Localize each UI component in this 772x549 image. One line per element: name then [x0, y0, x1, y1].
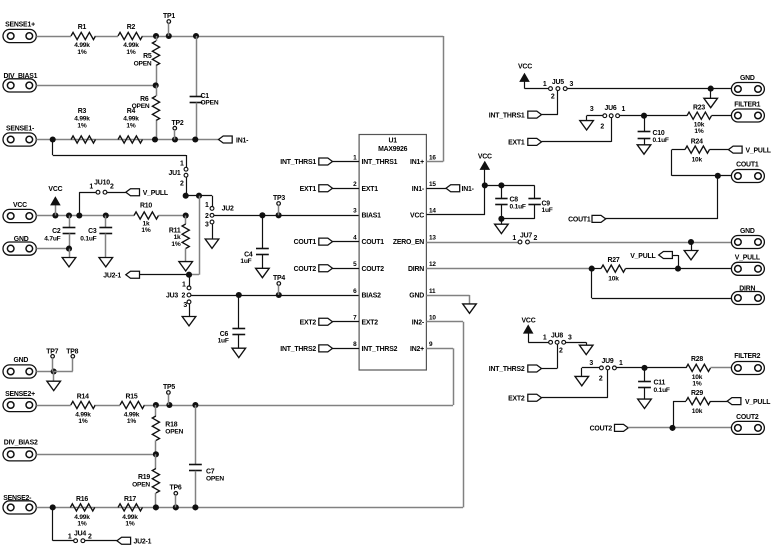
- svg-text:TP7: TP7: [46, 349, 58, 356]
- svg-text:OPEN: OPEN: [206, 475, 224, 482]
- svg-text:1uF: 1uF: [542, 207, 553, 214]
- svg-text:DIRN: DIRN: [408, 266, 424, 273]
- svg-text:C2: C2: [52, 228, 61, 235]
- svg-text:GND: GND: [409, 293, 424, 300]
- svg-text:1%: 1%: [78, 418, 87, 425]
- svg-text:R19: R19: [138, 474, 150, 481]
- svg-text:INT_THRS2: INT_THRS2: [489, 366, 525, 373]
- svg-text:4.7uF: 4.7uF: [44, 235, 60, 242]
- svg-text:1: 1: [182, 281, 186, 288]
- svg-text:IN1-: IN1-: [236, 137, 249, 144]
- svg-text:1%: 1%: [692, 381, 701, 388]
- svg-text:3: 3: [205, 222, 209, 229]
- svg-text:0.1uF: 0.1uF: [80, 235, 96, 242]
- svg-text:1uF: 1uF: [218, 337, 229, 344]
- svg-text:IN1+: IN1+: [410, 159, 424, 166]
- svg-text:C7: C7: [206, 468, 215, 475]
- svg-text:COUT2: COUT2: [590, 426, 613, 433]
- svg-text:TP2: TP2: [171, 120, 183, 127]
- svg-text:INT_THRS2: INT_THRS2: [362, 346, 398, 353]
- svg-text:16: 16: [429, 154, 436, 161]
- svg-text:V_PULL: V_PULL: [735, 254, 760, 261]
- svg-text:IN2+: IN2+: [410, 346, 424, 353]
- svg-text:OPEN: OPEN: [134, 60, 152, 67]
- svg-text:2: 2: [551, 94, 555, 101]
- svg-text:0.1uF: 0.1uF: [510, 203, 526, 210]
- svg-text:ZERO_EN: ZERO_EN: [393, 239, 424, 246]
- svg-text:FILTER1: FILTER1: [734, 101, 760, 108]
- svg-text:11: 11: [429, 288, 436, 295]
- svg-text:1%: 1%: [125, 521, 134, 528]
- svg-text:0.1uF: 0.1uF: [653, 137, 669, 144]
- svg-text:SENSE1-: SENSE1-: [6, 126, 35, 133]
- svg-text:JU8: JU8: [551, 333, 563, 340]
- svg-text:2: 2: [88, 534, 92, 541]
- svg-text:TP5: TP5: [163, 384, 175, 391]
- svg-text:2: 2: [205, 213, 209, 220]
- svg-text:JU6: JU6: [604, 105, 616, 112]
- svg-text:10k: 10k: [692, 408, 703, 415]
- svg-text:VCC: VCC: [13, 202, 27, 209]
- svg-text:BIAS2: BIAS2: [362, 293, 382, 300]
- svg-text:2: 2: [534, 235, 538, 242]
- svg-text:1: 1: [180, 160, 184, 167]
- svg-text:VCC: VCC: [518, 64, 532, 71]
- svg-text:GND: GND: [14, 357, 29, 364]
- svg-text:GND: GND: [740, 228, 755, 235]
- svg-text:JU2-1: JU2-1: [103, 273, 121, 280]
- svg-text:COUT1: COUT1: [362, 239, 385, 246]
- svg-text:JU10: JU10: [94, 179, 110, 186]
- svg-text:TP4: TP4: [273, 275, 285, 282]
- svg-text:COUT1: COUT1: [568, 217, 591, 224]
- svg-text:10k: 10k: [692, 156, 703, 163]
- svg-text:C10: C10: [653, 130, 665, 137]
- svg-text:2: 2: [559, 348, 563, 355]
- svg-text:COUT2: COUT2: [362, 266, 385, 273]
- svg-text:INT_THRS1: INT_THRS1: [489, 112, 525, 119]
- svg-text:V_PULL: V_PULL: [746, 147, 771, 154]
- svg-text:1%: 1%: [171, 241, 180, 248]
- svg-text:JU2-1: JU2-1: [134, 538, 152, 545]
- svg-text:1%: 1%: [127, 418, 136, 425]
- svg-text:VCC: VCC: [522, 317, 536, 324]
- svg-text:SENSE2+: SENSE2+: [5, 391, 35, 398]
- svg-text:R29: R29: [691, 390, 703, 397]
- svg-text:1: 1: [68, 534, 72, 541]
- svg-text:R16: R16: [76, 496, 88, 503]
- svg-text:0.1uF: 0.1uF: [654, 387, 670, 394]
- svg-text:1: 1: [512, 235, 516, 242]
- svg-text:JU7: JU7: [520, 232, 532, 239]
- svg-text:TP1: TP1: [163, 13, 175, 20]
- svg-text:OPEN: OPEN: [132, 481, 150, 488]
- svg-text:TP6: TP6: [169, 485, 181, 492]
- svg-text:R1: R1: [78, 24, 87, 31]
- svg-text:1: 1: [543, 81, 547, 88]
- svg-text:OPEN: OPEN: [201, 100, 219, 107]
- svg-text:BIAS1: BIAS1: [362, 213, 382, 220]
- svg-text:VCC: VCC: [410, 213, 424, 220]
- svg-text:1%: 1%: [694, 128, 703, 135]
- svg-text:3: 3: [589, 360, 593, 367]
- svg-text:10k: 10k: [608, 276, 619, 283]
- svg-text:IN2-: IN2-: [412, 319, 425, 326]
- svg-text:IN1-: IN1-: [412, 186, 425, 193]
- svg-text:JU1: JU1: [168, 170, 180, 177]
- svg-text:TP3: TP3: [273, 195, 285, 202]
- svg-text:3: 3: [183, 302, 187, 309]
- svg-text:1: 1: [543, 335, 547, 342]
- svg-text:EXT1: EXT1: [508, 140, 525, 147]
- svg-text:1: 1: [619, 360, 623, 367]
- svg-text:1%: 1%: [141, 227, 150, 234]
- svg-text:TP8: TP8: [66, 349, 78, 356]
- svg-text:1uF: 1uF: [240, 258, 251, 265]
- svg-text:JU9: JU9: [601, 358, 613, 365]
- svg-text:DIV_BIAS1: DIV_BIAS1: [4, 73, 38, 80]
- svg-text:R14: R14: [77, 393, 89, 400]
- svg-text:1%: 1%: [126, 122, 135, 129]
- svg-text:EXT2: EXT2: [362, 319, 379, 326]
- svg-text:2: 2: [182, 293, 186, 300]
- svg-text:2: 2: [600, 124, 604, 131]
- svg-text:1%: 1%: [126, 49, 135, 56]
- svg-text:EXT1: EXT1: [300, 186, 317, 193]
- svg-text:C3: C3: [88, 228, 97, 235]
- svg-text:MAX9926: MAX9926: [378, 146, 408, 153]
- svg-text:IN1-: IN1-: [462, 186, 475, 193]
- svg-text:FILTER2: FILTER2: [734, 353, 760, 360]
- svg-text:2: 2: [599, 376, 603, 383]
- svg-text:R3: R3: [78, 108, 87, 115]
- svg-text:VCC: VCC: [478, 154, 492, 161]
- svg-text:COUT1: COUT1: [294, 239, 317, 246]
- svg-text:1: 1: [205, 202, 209, 209]
- svg-text:R24: R24: [691, 138, 703, 145]
- svg-text:JU2: JU2: [222, 205, 234, 212]
- svg-text:DIV_BIAS2: DIV_BIAS2: [4, 440, 38, 447]
- svg-text:GND: GND: [740, 75, 755, 82]
- svg-text:DIRN: DIRN: [739, 286, 755, 293]
- svg-text:GND: GND: [14, 236, 29, 243]
- svg-text:COUT2: COUT2: [294, 266, 317, 273]
- svg-text:2: 2: [110, 184, 114, 191]
- svg-text:VCC: VCC: [48, 186, 62, 193]
- svg-text:13: 13: [429, 234, 436, 241]
- svg-text:JU5: JU5: [552, 79, 564, 86]
- svg-text:10: 10: [429, 315, 436, 322]
- svg-text:INT_THRS2: INT_THRS2: [280, 346, 316, 353]
- svg-text:3: 3: [568, 335, 572, 342]
- svg-text:R17: R17: [124, 496, 136, 503]
- svg-text:JU3: JU3: [166, 293, 178, 300]
- svg-text:EXT2: EXT2: [300, 319, 317, 326]
- svg-text:1%: 1%: [77, 521, 86, 528]
- svg-text:COUT2: COUT2: [736, 414, 759, 421]
- svg-text:R15: R15: [125, 393, 137, 400]
- svg-text:V_PULL: V_PULL: [745, 399, 770, 406]
- svg-text:C11: C11: [654, 380, 666, 387]
- svg-text:SENSE2-: SENSE2-: [3, 495, 32, 502]
- svg-text:INT_THRS1: INT_THRS1: [362, 159, 398, 166]
- svg-text:EXT1: EXT1: [362, 186, 379, 193]
- svg-text:R27: R27: [607, 257, 619, 264]
- svg-text:R18: R18: [165, 421, 177, 428]
- svg-text:SENSE1+: SENSE1+: [5, 22, 35, 29]
- svg-text:1: 1: [89, 184, 93, 191]
- svg-text:1%: 1%: [77, 49, 86, 56]
- svg-text:C8: C8: [510, 196, 519, 203]
- svg-text:R4: R4: [127, 108, 136, 115]
- svg-text:U1: U1: [388, 138, 397, 145]
- svg-text:3: 3: [590, 106, 594, 113]
- svg-text:EXT2: EXT2: [508, 395, 525, 402]
- svg-text:V_PULL: V_PULL: [143, 190, 168, 197]
- svg-text:1: 1: [622, 106, 626, 113]
- svg-text:R23: R23: [693, 104, 705, 111]
- svg-text:15: 15: [429, 181, 436, 188]
- svg-text:2: 2: [180, 180, 184, 187]
- svg-text:JU4: JU4: [74, 530, 86, 537]
- svg-text:R2: R2: [127, 24, 136, 31]
- svg-text:COUT1: COUT1: [736, 162, 759, 169]
- svg-text:12: 12: [429, 261, 436, 268]
- svg-text:INT_THRS1: INT_THRS1: [280, 159, 316, 166]
- svg-text:V_PULL: V_PULL: [630, 253, 655, 260]
- svg-text:1%: 1%: [77, 122, 86, 129]
- svg-text:R10: R10: [140, 203, 152, 210]
- svg-text:R5: R5: [143, 53, 152, 60]
- svg-text:3: 3: [570, 81, 574, 88]
- svg-text:R28: R28: [691, 356, 703, 363]
- svg-text:14: 14: [429, 208, 436, 215]
- svg-text:OPEN: OPEN: [165, 428, 183, 435]
